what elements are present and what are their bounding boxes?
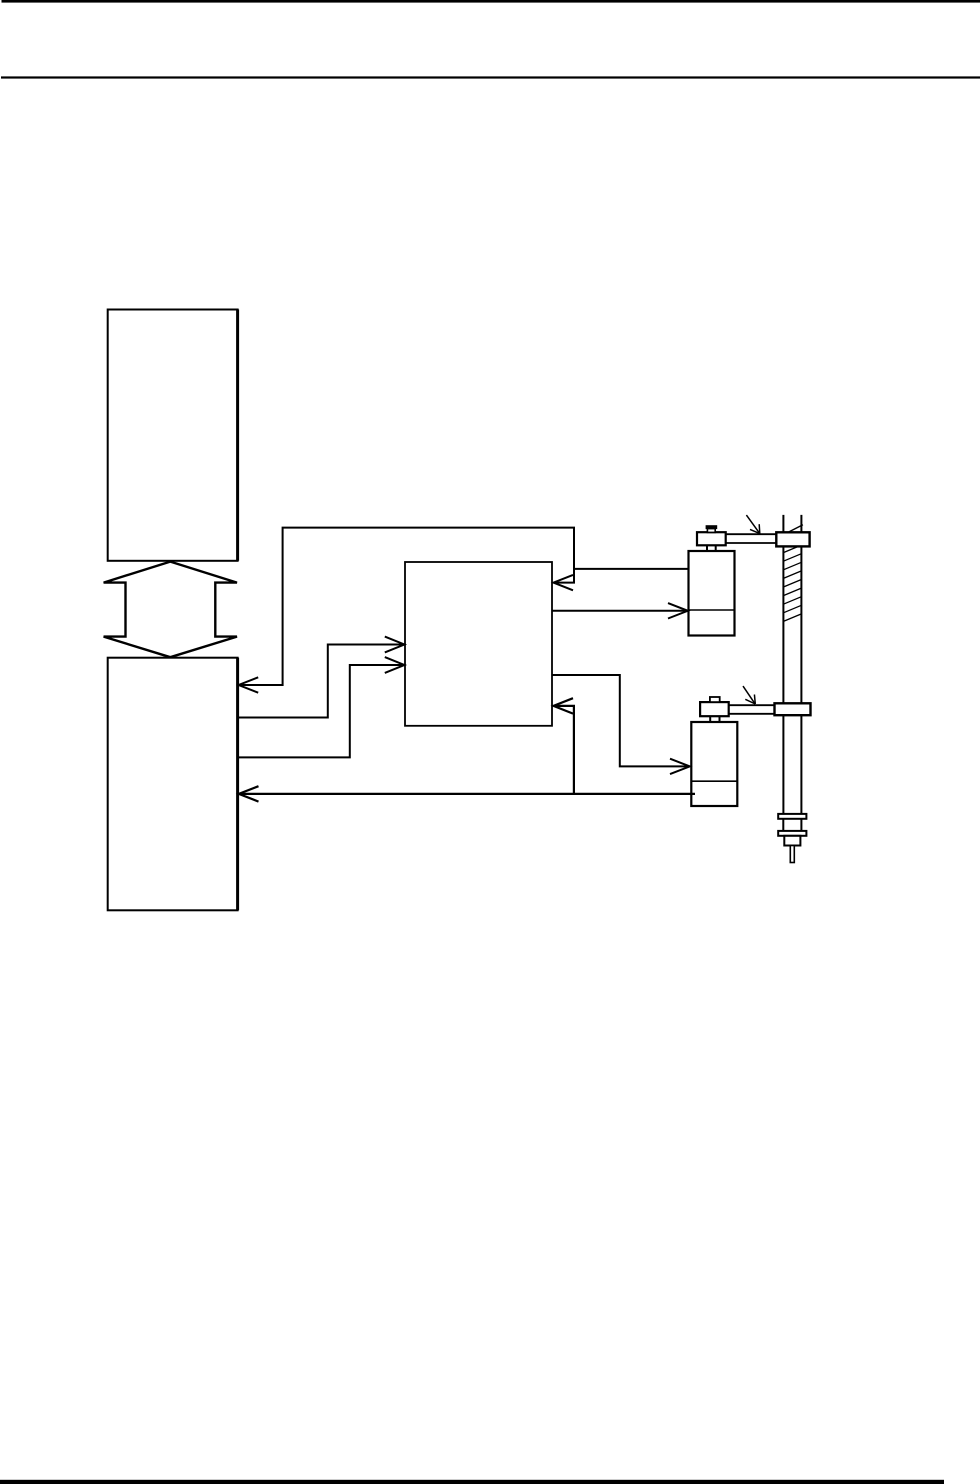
arrowhead net B into SOL1 [668, 603, 688, 618]
shaft section between collars right [800, 819, 802, 832]
shaft collar 1 [778, 814, 806, 819]
upper shaft holder [776, 532, 809, 546]
shaft collar 2 [778, 831, 806, 836]
page bottom border bar [0, 1480, 944, 1484]
SOL1 link bar bottom line [726, 542, 777, 544]
SOL1 flange [697, 532, 726, 545]
arrowhead net D into U1 [385, 657, 405, 673]
wire net A: from SOL1 to junction [574, 568, 689, 570]
hatch band on shaft [783, 545, 801, 621]
lower shaft holder [775, 703, 811, 715]
wire net C: B2 to U1 upper [239, 645, 404, 718]
SOL2 link bar bottom line [729, 713, 775, 715]
wire net D: B2 to U1 lower [239, 665, 404, 757]
shaft right edge [800, 515, 802, 814]
SOL2 small stud [710, 697, 720, 702]
page top border bar [2, 0, 980, 3]
callout arrow 1 barb horizontal [750, 529, 760, 533]
block B2 thick right edge [236, 658, 239, 911]
solenoid SOL1 body [689, 551, 735, 636]
SOL2 neck left [709, 716, 711, 722]
callout arrow 1 barb vertical [758, 524, 761, 533]
SOL2 neck right [719, 716, 721, 722]
SOL1 link bar top line [726, 533, 777, 535]
arrowhead net F branch into U1 [554, 698, 574, 713]
SOL2 flange [700, 702, 729, 716]
SOL1 neck right [715, 545, 717, 551]
arrowhead net F into B2 [239, 786, 259, 801]
SOL1 black cap [706, 525, 718, 529]
block B1 upper-left [108, 310, 238, 561]
bidirectional hollow arrow between B1 and B2 [104, 562, 237, 658]
shaft section between collars left [782, 819, 784, 832]
wire net E: U1 to SOL2 [553, 675, 690, 766]
wire net F: SOL2 back to B2 [239, 793, 695, 795]
callout arrow 2 barb horizontal [745, 699, 755, 704]
block B2 lower-left [108, 658, 238, 911]
wire net A: top rail with drops into B2 and U1 [239, 528, 574, 685]
block U1 central controller [405, 562, 552, 726]
hatch stroke above upper holder [789, 525, 803, 532]
SOL2 link bar top line [729, 704, 775, 706]
arrowhead net C into U1 [385, 637, 405, 653]
wire net F branch up into U1 [554, 706, 574, 794]
solenoid SOL2 body [691, 722, 737, 806]
arrowhead net A into U1 [554, 575, 574, 590]
SOL1 neck left [706, 545, 708, 551]
shaft tip pin [790, 846, 794, 863]
arrowhead net A into B2 [239, 677, 259, 692]
header rule [1, 76, 980, 78]
shaft tip box [784, 836, 800, 846]
SOL1 small stud [707, 529, 715, 533]
shaft left edge [782, 515, 784, 814]
SOL1 body division line [689, 609, 735, 611]
callout arrow 1 shaft [746, 515, 759, 533]
block B1 thick right edge [236, 310, 239, 561]
arrowhead net E into SOL2 [670, 759, 690, 774]
SOL2 body division line [691, 780, 737, 782]
wire net B: U1 to SOL1 [553, 610, 688, 612]
callout arrow 2 barb vertical [753, 695, 756, 705]
callout arrow 2 shaft [743, 686, 755, 704]
